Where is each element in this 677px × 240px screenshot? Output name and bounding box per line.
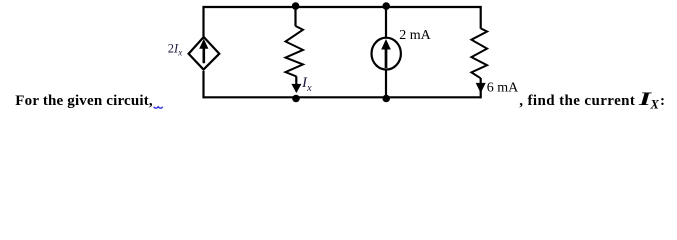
resistor R2 [471,28,487,78]
svg-text:, find the current: , find the current [519,93,635,109]
svg-text:2 mA: 2 mA [399,28,431,43]
svg-text:X: X [650,97,660,111]
dependent current source 2Ix (diamond) [189,37,220,70]
wire bottom [204,96,481,98]
node dot top R1 [292,2,300,10]
node dot bottom I1 [382,95,390,103]
node dot top I1 [382,2,390,10]
svg-text:2Ix: 2Ix [168,42,182,58]
wire top [204,6,481,8]
svg-text::: : [660,93,665,109]
wire resistor R1 top lead [294,6,296,26]
node dot bottom R1 [292,95,300,103]
squiggle (blue wavy underline) [154,107,163,108]
arrowhead Ix (down) [292,84,300,92]
wire right lower lead with current arrow [480,78,482,98]
wire right upper lead [480,6,482,29]
wire current source bottom lead [385,69,387,98]
wire left lower [202,71,204,98]
wire left upper [202,6,204,37]
wire resistor R1 bottom lead with current arrow Ix [295,76,297,91]
svg-text:Ix: Ix [301,75,312,94]
wire current source top lead [385,6,387,38]
arrowhead 6mA (down) [477,83,485,92]
svg-text:6 mA: 6 mA [487,80,519,95]
current source I1 2mA (circle) [372,38,401,70]
svg-text:For the given circuit,: For the given circuit, [15,93,153,109]
resistor R1 [286,26,304,77]
